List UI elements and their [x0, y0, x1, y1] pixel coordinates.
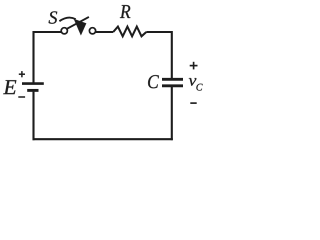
wire: capacitor down right side — [171, 87, 173, 140]
label E — [3, 80, 16, 94]
capacitor C bottom plate — [162, 84, 183, 87]
switch S lever (blade) — [67, 17, 89, 29]
capacitor minus sign — [190, 102, 196, 104]
label C — [148, 75, 159, 88]
wire: left branch from battery positive plate up and across to switch — [34, 32, 62, 83]
wire: left side bottom up to battery negative plate — [32, 92, 34, 141]
resistor R zigzag — [113, 27, 146, 37]
battery minus sign — [18, 96, 25, 98]
wire: switch right terminal to resistor — [96, 31, 114, 33]
label S — [49, 11, 58, 23]
label R — [120, 5, 130, 18]
capacitor plus sign — [190, 62, 198, 70]
battery E long positive plate — [22, 82, 44, 85]
switch closing motion arc — [59, 18, 75, 22]
wire: resistor to top-right corner and down to capacitor — [146, 32, 172, 78]
switch S left terminal circle — [61, 28, 67, 34]
switch S right terminal circle — [89, 28, 95, 34]
label vC (capacitor voltage) — [189, 78, 203, 91]
battery E short negative plate — [27, 89, 38, 92]
wire: bottom run — [33, 138, 173, 140]
capacitor C top plate — [162, 78, 183, 81]
battery plus sign — [19, 71, 25, 77]
switch motion arrowhead — [74, 19, 86, 35]
